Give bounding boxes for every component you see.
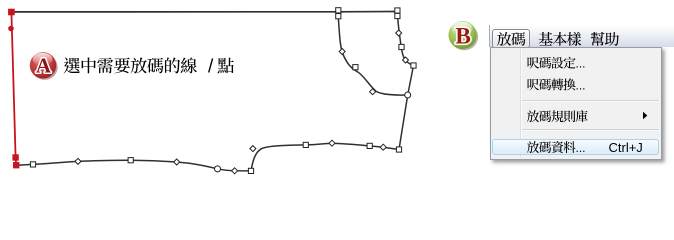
node square waist mid lower	[336, 14, 341, 19]
inseam junction circle	[405, 92, 411, 98]
crotch curve	[338, 17, 407, 95]
badge B gloss	[451, 22, 472, 36]
callout text 點	[218, 58, 234, 74]
dropdown menu panel	[490, 47, 662, 160]
svg-text:...: ...	[576, 141, 586, 155]
badge B ball	[449, 21, 477, 49]
submenu arrow	[643, 112, 647, 119]
callout text 選中需要放碼的線	[64, 57, 197, 73]
gutter separator line	[520, 49, 522, 157]
bottom square at kick	[248, 168, 253, 173]
bottom square r1	[367, 143, 372, 148]
menu bar background	[489, 25, 674, 47]
red grading point (bottom of side seam)	[13, 155, 18, 160]
bottom square mid-left	[128, 158, 133, 163]
bottom diamond left	[75, 158, 81, 164]
selected side seam (red line)	[11, 12, 16, 165]
pressed menu title button 放碼	[492, 29, 530, 48]
right inseam line	[399, 66, 414, 150]
red curve point	[8, 26, 14, 32]
node square waist right lower	[395, 13, 400, 18]
hip square bulge	[411, 63, 416, 68]
menu item 放碼資料	[527, 141, 576, 153]
bottom square mid-right	[303, 142, 308, 147]
menu item 呎碼設定	[528, 57, 576, 69]
pattern bottom edge curve	[16, 160, 251, 171]
bottom diamond mid-left	[174, 159, 180, 165]
floating diamond above kick	[250, 146, 256, 152]
crotch square	[353, 65, 358, 70]
bottom diamond near kick	[232, 168, 238, 174]
bottom diamond mid-right	[329, 140, 335, 146]
node square waist right upper	[395, 8, 400, 13]
bottom circle node	[215, 166, 221, 172]
callout slash	[209, 58, 213, 72]
svg-text:Ctrl+J: Ctrl+J	[609, 140, 643, 155]
crotch diamond 1	[339, 49, 345, 55]
crotch diamond 2	[370, 89, 376, 95]
menu separator 1	[522, 100, 659, 102]
menu title 放碼	[497, 32, 525, 46]
svg-text:B: B	[455, 23, 471, 49]
hip curve square 1	[399, 44, 404, 49]
node square waist mid upper	[336, 8, 341, 13]
bottom corner square right	[396, 147, 401, 152]
svg-text:A: A	[36, 53, 52, 77]
menu separator 2	[522, 129, 659, 131]
bottom kick-up curve	[251, 143, 399, 171]
svg-text:...: ...	[576, 78, 586, 92]
menu item 放碼規則庫	[527, 110, 588, 122]
highlighted menu item background	[492, 139, 659, 155]
menu title 基本樣	[539, 32, 582, 46]
menu title 幫助	[591, 32, 619, 46]
badge A ball	[30, 52, 56, 78]
red grading point (top-left corner)	[9, 9, 15, 15]
hip curve diamond 2	[403, 57, 409, 63]
badge A gloss	[33, 53, 53, 66]
hip curve diamond 1	[396, 30, 402, 36]
hip curve	[397, 12, 413, 66]
pattern top edge line	[11, 11, 397, 13]
badge A shadow	[31, 55, 57, 80]
svg-text:...: ...	[576, 57, 586, 71]
menu item 呎碼轉換	[528, 78, 576, 90]
red grading point (bottom-left corner)	[14, 163, 19, 168]
bottom diamond r2	[380, 144, 386, 150]
badge B shadow	[450, 24, 478, 51]
bottom square left	[30, 162, 35, 167]
